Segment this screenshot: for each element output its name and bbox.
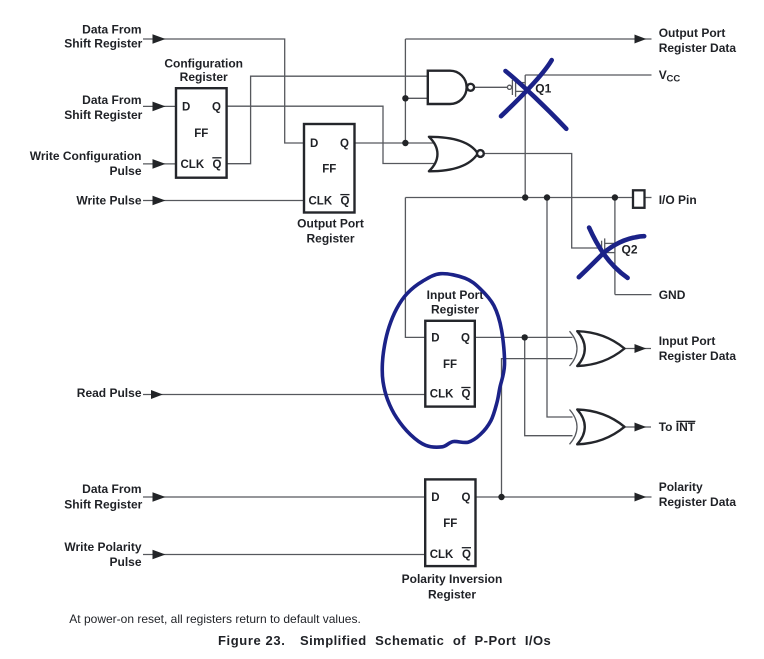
- svg-text:I/O Pin: I/O Pin: [659, 193, 697, 207]
- svg-text:Data From: Data From: [82, 93, 141, 107]
- blue annotation: X cross over Q1, stroke 2: [501, 60, 552, 116]
- wire: Read Pulse to CLK of Input Port Register: [143, 394, 425, 396]
- flip-flop box: Input Port Register: [425, 321, 475, 407]
- svg-text:Pulse: Pulse: [109, 164, 141, 178]
- svg-text:Q: Q: [462, 492, 471, 504]
- wire: Polarity Q up to XOR1 bottom input: [502, 359, 573, 497]
- wire: NAND output to Q1 gate: [474, 86, 507, 88]
- junction dot: Q1 drain on I/O line: [522, 194, 528, 200]
- svg-text:Register: Register: [431, 302, 479, 316]
- svg-text:Register: Register: [428, 588, 476, 602]
- wire: GND stub: [615, 294, 652, 296]
- xor gate U3 leading arc: [570, 331, 578, 366]
- arrow: Data From Shift Register (bottom): [153, 492, 166, 502]
- svg-text:To INT: To INT: [659, 420, 696, 434]
- xor gate U4 body: [577, 410, 624, 445]
- junction dot: NAND input branch: [402, 95, 408, 101]
- wire: Polarity Inversion Register Q to arrow: [476, 496, 652, 498]
- wire: Write Configuration Pulse to CLK of Configuration Register: [143, 163, 176, 165]
- svg-text:FF: FF: [194, 128, 208, 140]
- svg-text:Write Polarity: Write Polarity: [64, 540, 141, 554]
- svg-text:Register Data: Register Data: [659, 495, 737, 509]
- svg-text:Q: Q: [212, 101, 221, 113]
- wire: Configuration Register Qbar to NAND top input: [227, 76, 429, 164]
- blue annotation: X cross over Q2, stroke 1 (s-curve): [579, 236, 644, 277]
- arrow: Data From Shift Register (second): [153, 102, 166, 112]
- svg-text:Shift Register: Shift Register: [64, 108, 142, 122]
- svg-text:Q: Q: [462, 389, 471, 401]
- wire: Data From Shift Register (second) to D of Configuration Register: [143, 105, 176, 107]
- wire: Configuration Register Q to NOR bottom input: [227, 106, 434, 163]
- svg-text:Register Data: Register Data: [659, 41, 737, 55]
- svg-text:Polarity: Polarity: [659, 480, 703, 494]
- svg-text:Configuration: Configuration: [164, 56, 243, 70]
- flip-flop box: Configuration Register: [176, 88, 227, 178]
- transistor Q1 gate bar: [511, 80, 513, 95]
- flip-flop box: Output Port Register: [304, 124, 355, 213]
- junction dot: Output Q line: [402, 140, 408, 146]
- svg-text:CC: CC: [667, 73, 681, 84]
- junction dot: XOR2 branch on I/O line: [544, 194, 550, 200]
- arrow: Write Polarity Pulse: [153, 550, 166, 560]
- transistor Q2 source stub: [605, 252, 615, 254]
- svg-text:Q: Q: [213, 159, 222, 171]
- svg-text:Simplified Schematic of P-Port: Simplified Schematic of P-Port I/Os: [300, 633, 551, 648]
- wire: Q2 drain-source vertical from I/O line to GND: [614, 198, 616, 295]
- svg-text:Q: Q: [462, 549, 471, 561]
- wire: Data From Shift Register (bottom) to D of Polarity Inversion Register: [143, 496, 425, 498]
- transistor Q1 gate bubble: [507, 85, 511, 89]
- wire: I/O pin line: [405, 197, 633, 199]
- svg-text:Q2: Q2: [622, 243, 638, 257]
- transistor Q2 gate bar: [601, 241, 603, 256]
- blue annotation: X cross over Q1, stroke 1: [506, 71, 567, 129]
- transistor Q1 source stub: [516, 82, 526, 84]
- arrow: Input Port Register Data: [635, 344, 647, 353]
- svg-text:Shift Register: Shift Register: [64, 498, 142, 512]
- nand gate U1 output bubble: [467, 84, 474, 91]
- svg-text:D: D: [310, 138, 318, 150]
- transistor Q1 drain stub: [516, 90, 526, 92]
- svg-text:Write Pulse: Write Pulse: [76, 193, 141, 207]
- svg-text:Output Port: Output Port: [659, 26, 726, 40]
- svg-text:Register: Register: [180, 70, 228, 84]
- svg-text:Pulse: Pulse: [109, 555, 141, 569]
- svg-text:Q1: Q1: [535, 81, 551, 95]
- wire: Q1 source-drain vertical to I/O line: [524, 75, 526, 198]
- arrow: Data From Shift Register (top): [153, 34, 166, 44]
- blue annotation: X cross over Q2, stroke 2: [589, 228, 628, 278]
- svg-text:GND: GND: [659, 288, 686, 302]
- svg-text:FF: FF: [443, 359, 457, 371]
- svg-text:V: V: [659, 68, 667, 82]
- transistor Q1 channel bar: [515, 78, 517, 97]
- wire: Data From Shift Register (top) to D of Output Port Register: [143, 39, 304, 143]
- svg-text:Output Port: Output Port: [297, 217, 364, 231]
- arrow: To INT: [635, 423, 647, 432]
- svg-text:Polarity Inversion: Polarity Inversion: [402, 572, 503, 586]
- svg-text:CLK: CLK: [430, 549, 454, 561]
- svg-text:FF: FF: [443, 518, 457, 530]
- nor gate U2 output bubble: [477, 150, 484, 157]
- wire: Output Port Register Q to NOR top input: [355, 142, 435, 144]
- svg-text:FF: FF: [322, 163, 336, 175]
- arrow: Write Configuration Pulse: [153, 159, 166, 169]
- nand gate U1 body: [428, 71, 467, 104]
- wire: Output Port Register Data line to right arrow: [405, 38, 651, 40]
- flip-flop box: Polarity Inversion Register: [425, 479, 475, 566]
- blue annotation: hand-drawn circle around Input Port Register: [382, 274, 504, 447]
- nor gate U2 body: [429, 137, 478, 172]
- svg-text:Q: Q: [461, 333, 470, 345]
- junction dot: Input Q branch: [522, 334, 528, 340]
- junction dot: Q2 drain on I/O line: [612, 194, 618, 200]
- I/O pin symbol: [633, 190, 645, 208]
- xor gate U3 body: [577, 331, 624, 366]
- arrow: Write Pulse: [153, 196, 166, 206]
- svg-text:Data From: Data From: [82, 482, 141, 496]
- wire: Input Q branch down to XOR2 bottom input: [525, 337, 573, 435]
- svg-text:CLK: CLK: [309, 196, 333, 208]
- wire: VCC rail: [525, 74, 651, 76]
- wire: Write Polarity Pulse to CLK of Polarity Inversion Register: [143, 554, 425, 556]
- svg-text:CLK: CLK: [181, 159, 205, 171]
- svg-text:Read Pulse: Read Pulse: [77, 386, 142, 400]
- svg-text:Register: Register: [306, 231, 354, 245]
- svg-text:Input Port: Input Port: [659, 334, 716, 348]
- svg-text:Shift Register: Shift Register: [64, 37, 142, 51]
- wire: I/O pin stub to label: [645, 197, 652, 199]
- svg-text:Write Configuration: Write Configuration: [30, 149, 142, 163]
- arrow: Output Port Register Data: [635, 35, 647, 44]
- svg-text:D: D: [182, 101, 190, 113]
- wire: NOR output to Q2 gate: [485, 154, 602, 249]
- svg-text:Q: Q: [340, 138, 349, 150]
- svg-text:Figure 23.: Figure 23.: [218, 633, 285, 648]
- svg-text:Data From: Data From: [82, 23, 141, 37]
- wire: Input Port Register Q to XOR1 top input: [475, 336, 573, 338]
- wire: I/O line down to XOR2 top input: [547, 198, 573, 418]
- svg-text:Register Data: Register Data: [659, 349, 737, 363]
- wire: XOR2 output: [625, 426, 652, 428]
- junction dot: Polarity Q branch: [498, 494, 504, 500]
- wire: XOR1 output: [625, 348, 652, 350]
- wire: NAND bottom input branch: [405, 97, 428, 99]
- wire: vertical from Output Q line up to output data line: [404, 39, 406, 143]
- arrow: Read Pulse: [151, 390, 163, 399]
- svg-text:Q: Q: [341, 196, 350, 208]
- xor gate U4 leading arc: [570, 410, 578, 445]
- svg-text:D: D: [431, 492, 439, 504]
- transistor Q2 drain stub: [605, 242, 615, 244]
- svg-text:At power-on reset, all registe: At power-on reset, all registers return …: [69, 612, 360, 626]
- transistor Q2 channel bar: [604, 238, 606, 258]
- wire: Write Pulse to CLK of Output Port Register: [143, 200, 304, 202]
- svg-text:Input Port: Input Port: [427, 288, 484, 302]
- svg-text:D: D: [431, 333, 439, 345]
- svg-text:CLK: CLK: [430, 389, 454, 401]
- arrow: Polarity Register Data: [635, 493, 647, 502]
- wire: I/O line down to D of Input Port Register: [405, 198, 425, 338]
